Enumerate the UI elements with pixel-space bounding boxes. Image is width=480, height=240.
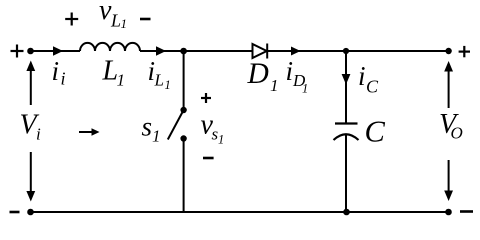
minus sign bottom-right (Vo -): [460, 210, 473, 213]
svg-text:D: D: [247, 58, 269, 90]
inductor L1: [80, 43, 140, 51]
node top-left: [27, 48, 34, 55]
arrowhead current i_i: [53, 46, 63, 55]
arrowhead current i_D1: [291, 47, 301, 56]
svg-text:i: i: [358, 61, 366, 91]
svg-text:1: 1: [218, 132, 224, 146]
svg-text:s: s: [142, 112, 153, 142]
svg-text:L: L: [154, 71, 164, 90]
switch s1 bottom contact: [180, 135, 186, 141]
svg-text:1: 1: [302, 81, 308, 95]
label iC: [358, 61, 379, 97]
svg-text:i: i: [36, 125, 41, 144]
svg-text:C: C: [366, 77, 379, 97]
wire capacitor upper lead: [345, 51, 347, 123]
label Vo: [439, 109, 463, 143]
capacitor C: [334, 124, 359, 141]
minus sign bottom-left (Vi -): [10, 211, 20, 214]
arrow power-flow right (near Vi): [79, 128, 100, 135]
wire top rail left (node to inductor): [31, 50, 81, 52]
svg-text:L: L: [110, 11, 121, 31]
switch s1 top contact: [180, 107, 186, 113]
label L1: [102, 55, 126, 89]
voltage arrow Vi up: [26, 61, 35, 106]
plus sign vL1 left: [65, 13, 78, 26]
node top-right: [445, 48, 451, 54]
svg-text:1: 1: [270, 76, 279, 95]
svg-text:1: 1: [121, 16, 128, 31]
label iD1: [286, 56, 309, 96]
svg-text:i: i: [61, 68, 66, 88]
svg-text:1: 1: [165, 78, 171, 92]
wire top rail mid (inductor to diode): [140, 50, 253, 52]
label s1: [142, 112, 161, 146]
svg-text:O: O: [451, 124, 463, 143]
label D1: [247, 58, 279, 95]
wire top rail right (diode to right node): [267, 50, 448, 52]
diode D1: [253, 44, 268, 59]
node top-cap: [343, 48, 349, 54]
node bottom-right: [445, 209, 452, 216]
label iL1: [148, 56, 171, 92]
svg-text:i: i: [52, 56, 60, 86]
label Vi: [20, 110, 42, 144]
arrowhead current i_C (on cap lead): [342, 74, 351, 85]
plus sign vs1: [201, 93, 211, 103]
svg-text:1: 1: [117, 71, 126, 90]
voltage arrow Vi down: [26, 152, 35, 202]
svg-text:C: C: [365, 115, 386, 149]
minus sign vs1: [203, 157, 214, 160]
plus sign top-left (Vi +): [11, 45, 24, 58]
wire bottom rail: [31, 211, 449, 213]
node top-mid (after L1): [180, 48, 187, 55]
node bottom-cap: [343, 209, 350, 216]
label ii: [52, 56, 66, 88]
label vs1: [201, 110, 225, 147]
node bottom-left: [27, 209, 34, 216]
voltage arrow Vo up: [444, 61, 453, 108]
label vL1: [99, 0, 127, 31]
wire switch upper lead: [183, 51, 185, 110]
minus sign vL1 right: [140, 18, 151, 21]
switch s1 blade: [168, 110, 184, 140]
svg-text:1: 1: [152, 127, 161, 146]
wire switch lower lead: [183, 139, 185, 213]
wire capacitor lower lead: [345, 135, 347, 213]
arrowhead current i_L1: [156, 46, 166, 55]
plus sign top-right (Vo +): [459, 46, 470, 57]
svg-text:i: i: [286, 56, 294, 86]
voltage arrow Vo down: [444, 160, 453, 201]
